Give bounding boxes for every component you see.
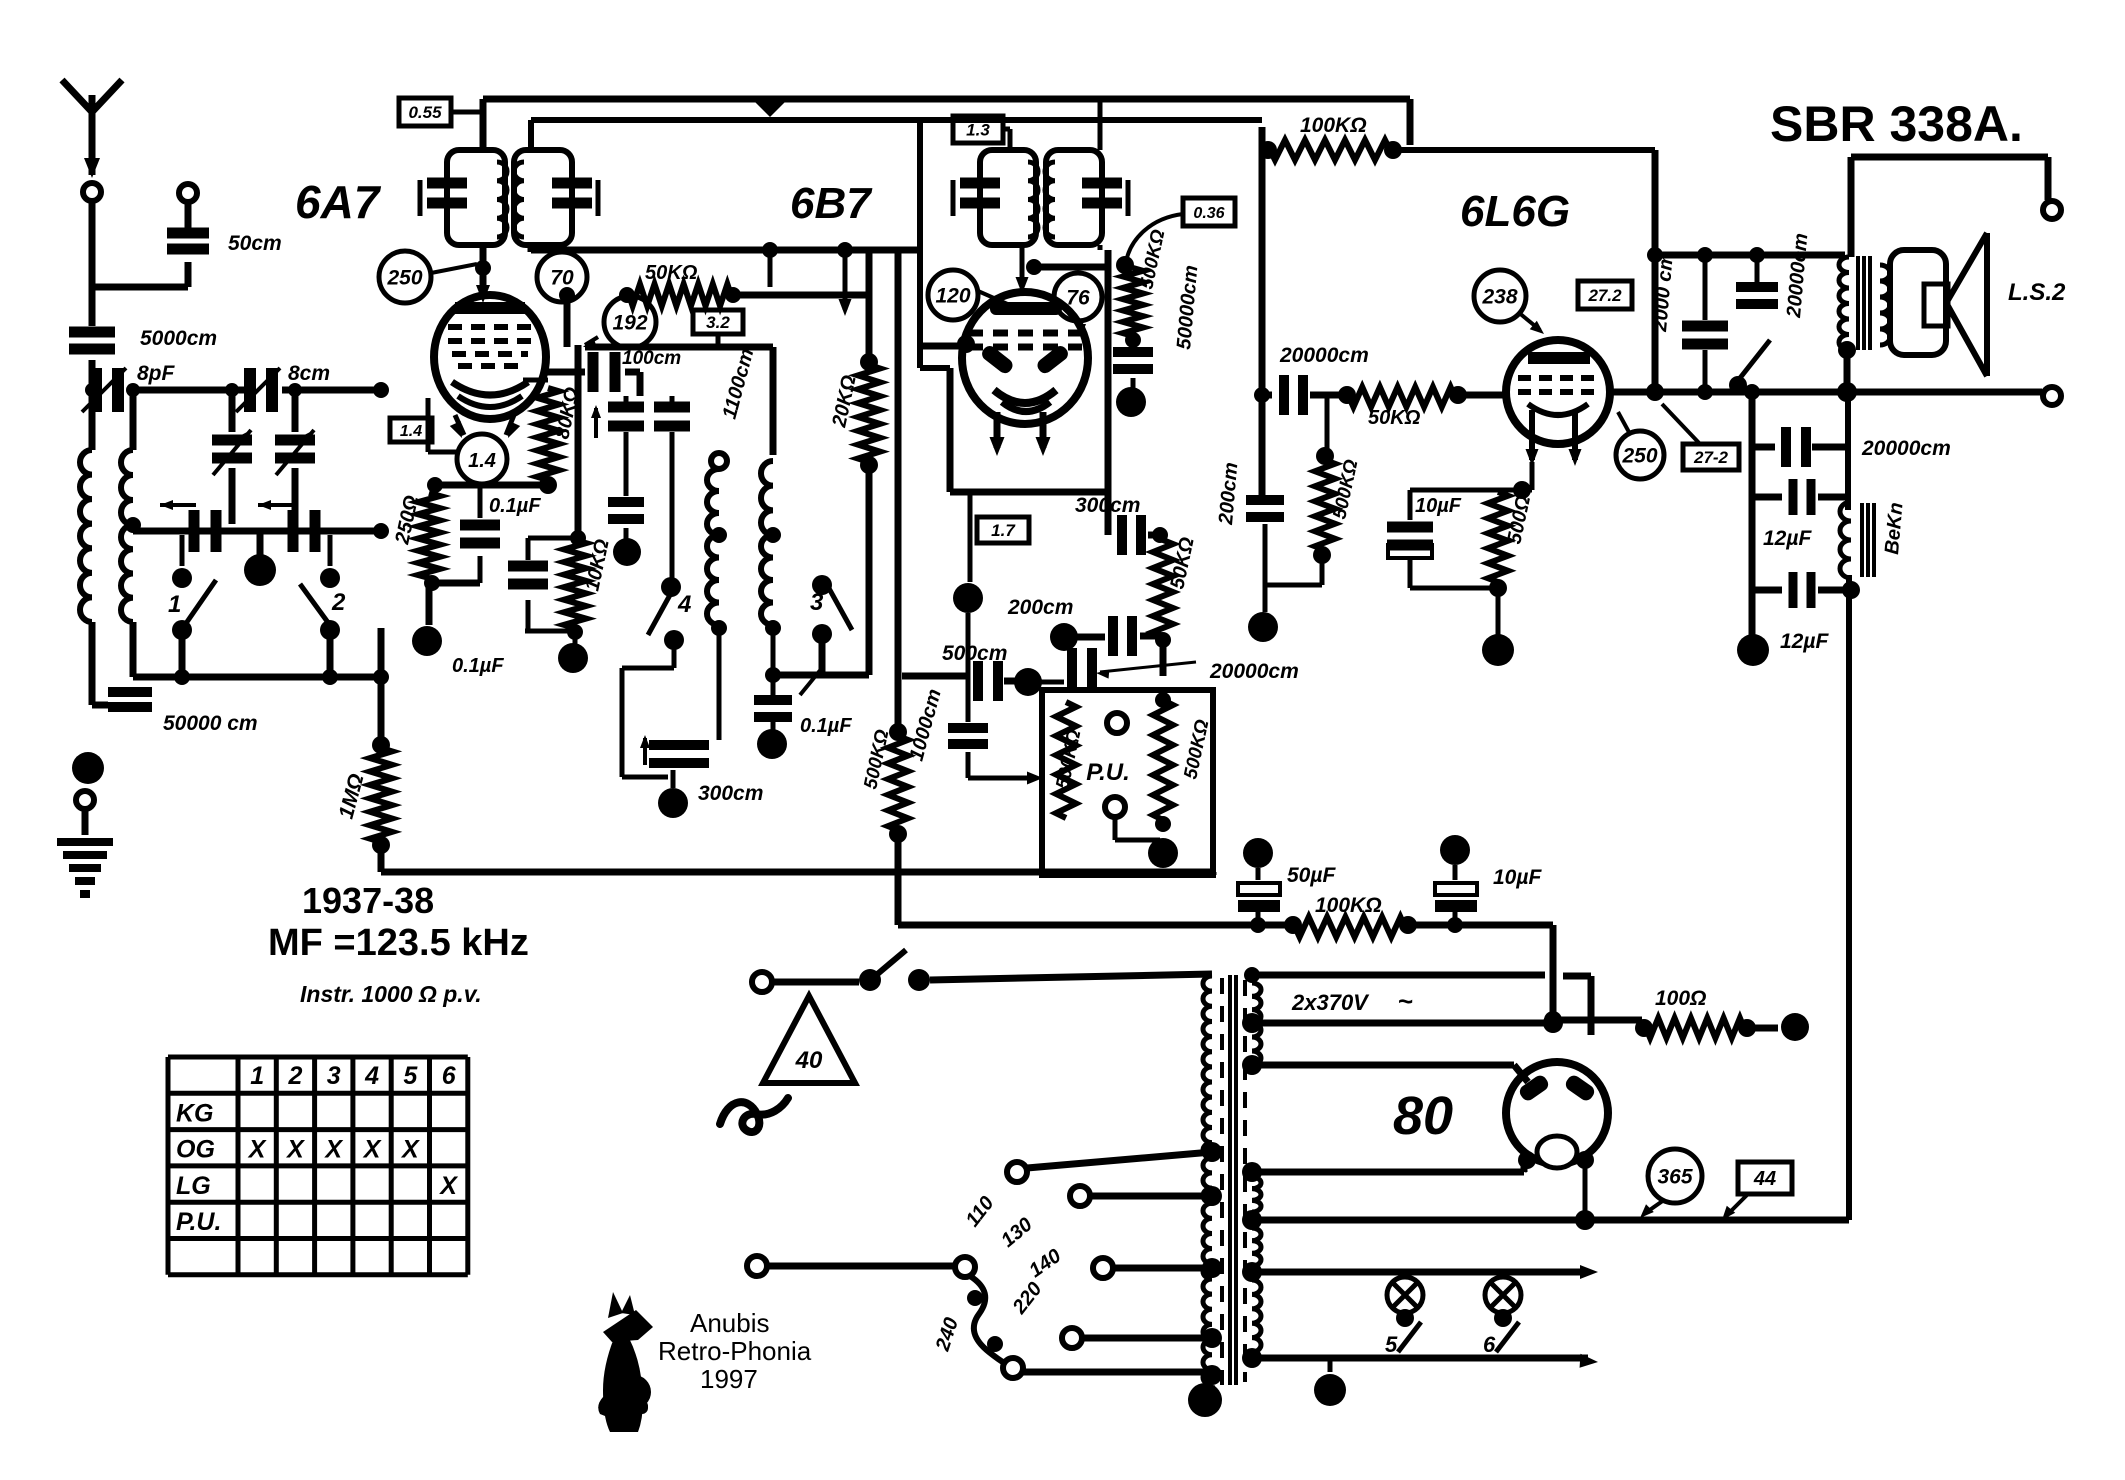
svg-text:20000cm: 20000cm — [1279, 344, 1369, 367]
svg-text:3.2: 3.2 — [706, 313, 730, 332]
svg-text:2: 2 — [331, 589, 346, 616]
svg-text:20000cm: 20000cm — [1209, 660, 1299, 683]
svg-text:2x370V: 2x370V — [1291, 990, 1370, 1015]
svg-text:6: 6 — [1483, 1332, 1496, 1357]
svg-text:6: 6 — [442, 1062, 457, 1090]
svg-text:200cm: 200cm — [1007, 596, 1073, 619]
svg-text:MF =123.5 kHz: MF =123.5 kHz — [268, 922, 529, 964]
svg-text:1: 1 — [168, 591, 181, 618]
svg-text:X: X — [400, 1136, 420, 1164]
svg-text:X: X — [438, 1172, 458, 1200]
svg-text:1: 1 — [250, 1062, 264, 1090]
svg-text:1937-38: 1937-38 — [302, 880, 434, 921]
svg-text:12µF: 12µF — [1780, 630, 1829, 653]
svg-text:X: X — [362, 1136, 382, 1164]
svg-text:P.U.: P.U. — [1086, 759, 1130, 786]
svg-text:3: 3 — [810, 589, 824, 616]
svg-text:50µF: 50µF — [1287, 864, 1336, 887]
svg-text:6B7: 6B7 — [790, 179, 873, 228]
svg-text:1997: 1997 — [700, 1364, 758, 1394]
svg-text:12µF: 12µF — [1763, 527, 1812, 550]
svg-text:300cm: 300cm — [698, 782, 763, 805]
svg-text:3: 3 — [327, 1062, 341, 1090]
svg-text:10µF: 10µF — [1415, 495, 1462, 517]
svg-text:70: 70 — [550, 267, 574, 290]
svg-text:8cm: 8cm — [288, 362, 330, 385]
svg-text:0.1µF: 0.1µF — [452, 655, 504, 677]
svg-text:50cm: 50cm — [228, 232, 282, 255]
svg-text:365: 365 — [1657, 1166, 1692, 1189]
svg-text:80: 80 — [1393, 1086, 1453, 1146]
svg-text:4: 4 — [364, 1062, 379, 1090]
svg-text:5000cm: 5000cm — [140, 327, 217, 350]
svg-text:OG: OG — [176, 1136, 215, 1164]
svg-text:4: 4 — [677, 591, 691, 618]
svg-text:192: 192 — [612, 312, 647, 335]
svg-text:250: 250 — [386, 267, 422, 290]
svg-text:X: X — [247, 1136, 267, 1164]
svg-text:2: 2 — [287, 1062, 302, 1090]
svg-text:SBR 338A.: SBR 338A. — [1770, 96, 2023, 152]
svg-text:X: X — [285, 1136, 305, 1164]
svg-text:1.4: 1.4 — [468, 450, 496, 472]
svg-text:100Ω: 100Ω — [1655, 987, 1706, 1010]
svg-text:0.1µF: 0.1µF — [489, 495, 541, 517]
svg-text:500cm: 500cm — [942, 642, 1007, 665]
svg-text:KG: KG — [176, 1099, 214, 1127]
svg-text:1.4: 1.4 — [400, 423, 422, 440]
svg-text:6A7: 6A7 — [295, 176, 382, 228]
svg-text:Instr. 1000 Ω p.v.: Instr. 1000 Ω p.v. — [300, 981, 482, 1007]
svg-text:BeKn: BeKn — [1881, 501, 1907, 555]
svg-text:0.1µF: 0.1µF — [800, 715, 852, 737]
svg-text:LG: LG — [176, 1172, 211, 1200]
svg-text:44: 44 — [1753, 1168, 1776, 1190]
svg-text:20000cm: 20000cm — [1861, 437, 1951, 460]
svg-text:27-2: 27-2 — [1693, 448, 1729, 467]
svg-text:6L6G: 6L6G — [1460, 187, 1570, 236]
svg-text:76: 76 — [1066, 287, 1090, 310]
svg-text:120: 120 — [935, 285, 970, 308]
svg-text:1.3: 1.3 — [966, 121, 990, 140]
svg-text:250: 250 — [1621, 445, 1657, 468]
svg-text:10µF: 10µF — [1493, 866, 1542, 889]
svg-text:300cm: 300cm — [1075, 494, 1140, 517]
svg-text:100KΩ: 100KΩ — [1300, 114, 1367, 137]
svg-text:100KΩ: 100KΩ — [1315, 894, 1382, 917]
svg-text:5: 5 — [403, 1062, 418, 1090]
svg-text:Anubis: Anubis — [690, 1308, 770, 1338]
svg-text:50KΩ: 50KΩ — [1368, 407, 1421, 429]
svg-text:5: 5 — [1385, 1332, 1398, 1357]
svg-text:~: ~ — [1398, 986, 1413, 1016]
svg-text:50000 cm: 50000 cm — [163, 712, 258, 735]
svg-text:X: X — [323, 1136, 343, 1164]
svg-text:0.55: 0.55 — [408, 103, 442, 122]
svg-text:P.U.: P.U. — [176, 1208, 221, 1236]
svg-text:27.2: 27.2 — [1587, 286, 1622, 305]
svg-text:40: 40 — [795, 1047, 823, 1074]
svg-text:100cm: 100cm — [622, 348, 681, 369]
svg-text:8pF: 8pF — [137, 362, 176, 385]
svg-text:L.S.2: L.S.2 — [2008, 279, 2066, 306]
svg-text:1.7: 1.7 — [991, 521, 1016, 540]
svg-text:0.36: 0.36 — [1193, 205, 1224, 222]
svg-text:50KΩ: 50KΩ — [645, 262, 698, 284]
svg-text:Retro-Phonia: Retro-Phonia — [658, 1336, 812, 1366]
svg-text:238: 238 — [1481, 286, 1517, 309]
